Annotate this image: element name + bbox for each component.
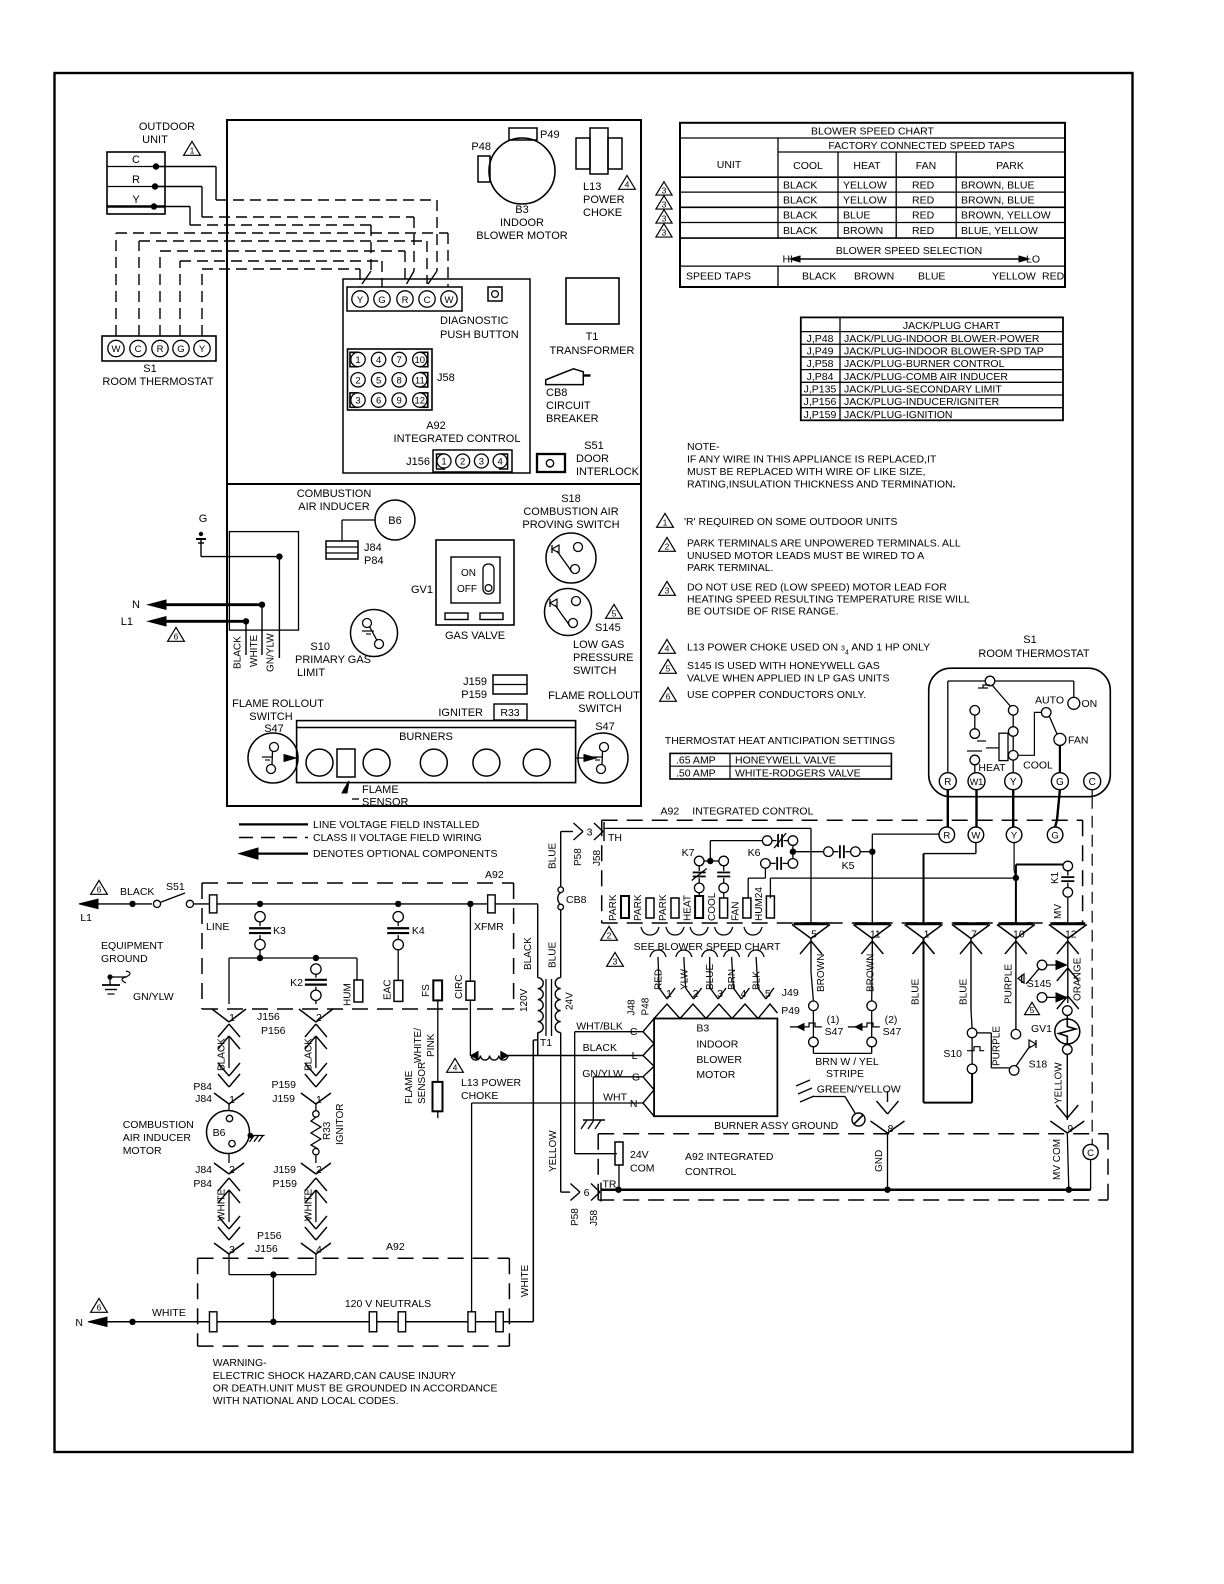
svg-text:K6: K6 (748, 847, 761, 859)
svg-text:A92: A92 (426, 420, 446, 432)
svg-text:FLAME ROLLOUT: FLAME ROLLOUT (232, 698, 324, 710)
BRN W/YEL STRIPE link (812, 1047, 814, 1054)
svg-text:R33: R33 (500, 707, 519, 719)
svg-text:COOL: COOL (793, 160, 823, 172)
junction rect (229, 532, 298, 631)
junction to J156-1 (257, 955, 263, 961)
svg-text:P156: P156 (257, 1230, 282, 1242)
GV1 yellow wire to terminal 9 (1066, 1054, 1068, 1120)
legend: optional (247, 852, 308, 854)
svg-text:HEAT: HEAT (978, 762, 1006, 774)
svg-text:RED: RED (1042, 271, 1065, 283)
svg-text:PRESSURE: PRESSURE (573, 652, 634, 664)
svg-text:INDOOR: INDOOR (696, 1039, 738, 1051)
joining wires to neutral (228, 1254, 230, 1275)
svg-text:PURPLE: PURPLE (1004, 964, 1015, 1004)
svg-text:RED: RED (912, 210, 935, 222)
svg-text:BLACK: BLACK (233, 636, 244, 669)
svg-text:CB8: CB8 (546, 387, 567, 399)
svg-text:INTEGRATED CONTROL: INTEGRATED CONTROL (692, 806, 813, 818)
svg-text:OUTDOOR: OUTDOOR (139, 121, 195, 133)
svg-text:G: G (199, 513, 208, 525)
svg-text:Y: Y (357, 295, 364, 306)
svg-text:A92 INTEGRATED: A92 INTEGRATED (685, 1151, 774, 1163)
svg-text:10: 10 (1013, 929, 1025, 941)
svg-text:DOOR: DOOR (576, 453, 609, 465)
svg-text:BE OUTSIDE OF RISE RANGE.: BE OUTSIDE OF RISE RANGE. (687, 606, 839, 618)
note triangle 6 (168, 627, 185, 641)
svg-text:GROUND: GROUND (101, 953, 148, 965)
svg-text:P84: P84 (193, 1178, 212, 1190)
svg-text:CIRC: CIRC (454, 975, 465, 999)
svg-text:RATING,INSULATION THICKNESS AN: RATING,INSULATION THICKNESS AND TERMINAT… (687, 479, 956, 491)
svg-text:PARK TERMINAL.: PARK TERMINAL. (687, 562, 774, 574)
svg-text:1: 1 (441, 457, 446, 468)
svg-text:DO NOT USE RED (LOW SPEED) MOT: DO NOT USE RED (LOW SPEED) MOTOR LEAD FO… (687, 582, 947, 594)
svg-text:J159: J159 (463, 676, 487, 688)
svg-text:B3: B3 (696, 1023, 709, 1035)
svg-text:JACK/PLUG-SECONDARY LIMIT: JACK/PLUG-SECONDARY LIMIT (844, 384, 1002, 396)
svg-text:BLUE: BLUE (548, 843, 559, 869)
svg-text:CB8: CB8 (566, 894, 587, 906)
svg-text:R33: R33 (322, 1121, 333, 1140)
thermostat C wire (dashed, field) (1091, 790, 1093, 797)
svg-text:C: C (132, 154, 140, 166)
svg-text:YELLOW: YELLOW (843, 194, 887, 206)
svg-text:Y: Y (1011, 831, 1018, 842)
svg-text:JACK/PLUG CHART: JACK/PLUG CHART (903, 320, 1001, 332)
note 3 (659, 581, 676, 595)
svg-text:P49: P49 (781, 1005, 800, 1017)
relay contact K5 (824, 847, 834, 857)
GV1 gas valve (436, 540, 514, 625)
J159 P159 plug (493, 675, 527, 694)
svg-text:W: W (971, 831, 980, 842)
svg-text:P84: P84 (193, 1081, 212, 1093)
svg-text:S47: S47 (825, 1026, 844, 1038)
svg-text:6: 6 (584, 1187, 590, 1199)
svg-text:USE COPPER CONDUCTORS ONLY.: USE COPPER CONDUCTORS ONLY. (687, 689, 866, 701)
svg-text:OR DEATH.UNIT MUST BE GROUNDED: OR DEATH.UNIT MUST BE GROUNDED IN ACCORD… (213, 1383, 498, 1395)
svg-text:DENOTES OPTIONAL COMPONENTS: DENOTES OPTIONAL COMPONENTS (313, 848, 498, 860)
svg-text:R: R (132, 174, 140, 186)
svg-text:WHITE: WHITE (520, 1264, 531, 1297)
svg-text:PINK: PINK (426, 1033, 437, 1057)
svg-text:WARNING-: WARNING- (213, 1357, 267, 1369)
svg-text:LOW GAS: LOW GAS (573, 639, 624, 651)
svg-text:COOL: COOL (707, 892, 718, 921)
svg-text:S47: S47 (595, 721, 615, 733)
svg-text:UNIT: UNIT (142, 134, 168, 146)
svg-text:7: 7 (971, 929, 977, 941)
svg-text:BLUE, YELLOW: BLUE, YELLOW (961, 225, 1038, 237)
svg-text:B6: B6 (213, 1127, 226, 1139)
fuse 24V COM (615, 1142, 623, 1165)
blower motor B3 (top) (489, 138, 555, 204)
HUM accessory terminal (356, 958, 358, 980)
svg-text:BURNERS: BURNERS (399, 731, 453, 743)
svg-text:WHT: WHT (603, 1092, 627, 1104)
svg-text:3: 3 (613, 957, 618, 967)
note triangle 4 (619, 175, 636, 189)
P58-3 TH plug arrow (574, 823, 584, 832)
P58-6 TR plug arrow (570, 1184, 580, 1193)
svg-text:BLACK: BLACK (217, 1038, 228, 1071)
svg-text:GV1: GV1 (1031, 1023, 1052, 1035)
svg-text:120 V NEUTRALS: 120 V NEUTRALS (345, 1298, 431, 1310)
svg-text:S10: S10 (310, 641, 330, 653)
svg-text:INDOOR: INDOOR (500, 217, 544, 229)
svg-text:BROWN: BROWN (843, 225, 883, 237)
svg-text:FLAME: FLAME (404, 1070, 415, 1104)
svg-text:6: 6 (666, 692, 671, 702)
L13 power choke symbol (576, 138, 590, 169)
svg-text:N: N (132, 599, 140, 611)
relay contact K1 (1063, 861, 1073, 871)
blower speed chart table (680, 123, 1065, 287)
svg-text:IF ANY WIRE IN THIS APPLIANCE: IF ANY WIRE IN THIS APPLIANCE IS REPLACE… (687, 454, 937, 466)
jack/plug chart table (801, 317, 1063, 420)
J84 P84 pin 2 (228, 1154, 230, 1163)
svg-text:BROWN, BLUE: BROWN, BLUE (961, 179, 1035, 191)
svg-text:2: 2 (460, 457, 465, 468)
svg-text:P49: P49 (540, 129, 560, 141)
svg-text:EAC: EAC (383, 979, 394, 1000)
svg-text:CONTROL: CONTROL (685, 1166, 736, 1178)
svg-text:HONEYWELL VALVE: HONEYWELL VALVE (735, 754, 836, 766)
svg-text:TH: TH (608, 832, 622, 844)
BLACK wire (inducer) (218, 1024, 229, 1037)
svg-text:BLUE: BLUE (548, 942, 559, 968)
note triangle 6 (L1 feed) (91, 880, 108, 894)
relay K3 coil (255, 912, 265, 922)
svg-text:1: 1 (190, 146, 195, 156)
svg-text:K4: K4 (412, 925, 425, 937)
svg-text:CIRCUIT: CIRCUIT (546, 400, 591, 412)
svg-text:2: 2 (316, 1164, 322, 1176)
thermostat body (929, 668, 1111, 797)
svg-text:P58: P58 (570, 1208, 581, 1226)
svg-text:SENSOR: SENSOR (362, 797, 409, 809)
svg-text:W1: W1 (970, 777, 984, 787)
svg-text:5: 5 (811, 929, 817, 941)
EAC accessory terminal (394, 980, 403, 1001)
thermostat terminals R W1 Y G C (939, 773, 956, 790)
svg-text:P159: P159 (461, 689, 487, 701)
svg-text:JACK/PLUG-INDOOR BLOWER-SPD TA: JACK/PLUG-INDOOR BLOWER-SPD TAP (844, 345, 1044, 357)
svg-text:Y: Y (199, 344, 206, 355)
svg-text:BLACK: BLACK (783, 210, 817, 222)
CB8 breaker (schematic) (558, 887, 564, 893)
svg-text:S145 IS USED WITH HONEYWELL GA: S145 IS USED WITH HONEYWELL GAS (687, 660, 880, 672)
svg-text:THERMOSTAT HEAT ANTICIPATION S: THERMOSTAT HEAT ANTICIPATION SETTINGS (665, 735, 895, 747)
svg-text:3: 3 (665, 586, 670, 596)
svg-text:9: 9 (397, 396, 402, 407)
note triangle 6 (neutral) (91, 1298, 108, 1312)
lower A92 integrated control dashed box (598, 1133, 1108, 1135)
svg-text:WITH NATIONAL AND LOCAL CODES.: WITH NATIONAL AND LOCAL CODES. (213, 1395, 399, 1407)
svg-text:11: 11 (415, 375, 425, 386)
svg-text:4: 4 (625, 180, 630, 190)
svg-text:COOL: COOL (1023, 760, 1053, 772)
svg-text:6: 6 (97, 1303, 102, 1313)
svg-text:BLOWER MOTOR: BLOWER MOTOR (476, 230, 568, 242)
svg-text:R: R (402, 295, 409, 306)
CB8 circuit breaker symbol (546, 369, 584, 385)
svg-text:PROVING SWITCH: PROVING SWITCH (522, 519, 619, 531)
svg-text:2: 2 (665, 542, 670, 552)
svg-text:W: W (112, 344, 121, 355)
B3 indoor blower motor box (654, 1019, 777, 1117)
legend: line voltage (239, 823, 308, 825)
relay K2 coil (313, 955, 319, 961)
svg-text:GN/YLW: GN/YLW (266, 633, 277, 672)
cool contact chain (Y) (1008, 706, 1018, 716)
svg-text:BROWN: BROWN (865, 954, 876, 992)
svg-text:J49: J49 (782, 987, 799, 999)
svg-text:3: 3 (355, 396, 360, 407)
svg-text:J156: J156 (406, 456, 430, 468)
wire thermostat R (159, 251, 161, 336)
J156 connector strip (433, 450, 512, 472)
svg-text:WHT/BLK: WHT/BLK (576, 1021, 623, 1033)
P48 plug sawtooth (B3 left) (643, 1019, 654, 1117)
svg-text:9: 9 (1067, 1123, 1073, 1135)
svg-text:G: G (177, 344, 184, 355)
svg-text:K2: K2 (290, 977, 303, 989)
wire outdoor C (156, 166, 216, 168)
svg-text:LINE VOLTAGE FIELD INSTALLED: LINE VOLTAGE FIELD INSTALLED (313, 819, 480, 831)
svg-text:G: G (632, 1072, 640, 1084)
svg-text:FAN: FAN (916, 160, 936, 172)
note 1 (657, 513, 674, 527)
svg-text:FACTORY CONNECTED SPEED TAPS: FACTORY CONNECTED SPEED TAPS (828, 140, 1014, 152)
svg-text:J84: J84 (195, 1093, 212, 1105)
svg-text:LIMIT: LIMIT (297, 667, 325, 679)
svg-text:2: 2 (229, 1164, 235, 1176)
svg-text:HEAT: HEAT (853, 160, 881, 172)
neutral fuses (209, 1312, 217, 1332)
wire GN/YLW (G) to chassis ground (593, 1076, 643, 1078)
BLUE wire secondary top to CB8 (560, 909, 562, 977)
svg-text:FLAME ROLLOUT: FLAME ROLLOUT (548, 690, 640, 702)
svg-text:FS: FS (421, 984, 432, 997)
svg-text:HEAT: HEAT (683, 895, 694, 921)
svg-text:4: 4 (453, 1063, 458, 1073)
legend: class II (239, 837, 308, 839)
svg-text:.50 AMP: .50 AMP (676, 767, 716, 779)
svg-text:XFMR: XFMR (474, 921, 504, 933)
R wire to RO2 (872, 833, 939, 835)
svg-text:PUSH BUTTON: PUSH BUTTON (440, 329, 519, 341)
svg-text:SWITCH: SWITCH (573, 665, 616, 677)
pressure switch S18 (blower section) (1009, 1066, 1019, 1076)
svg-text:K7: K7 (682, 847, 695, 859)
svg-text:PURPLE: PURPLE (992, 1026, 1003, 1066)
svg-text:PARK: PARK (608, 894, 619, 921)
svg-text:LINE: LINE (206, 921, 229, 933)
svg-text:FAN: FAN (1068, 735, 1088, 747)
integrated control A92 solid box (343, 279, 530, 473)
svg-text:YELLOW: YELLOW (992, 271, 1036, 283)
svg-text:HUM: HUM (343, 983, 354, 1006)
T1 secondary bottom YELLOW wire (560, 1033, 562, 1193)
outdoor unit terminal box (107, 152, 165, 214)
svg-text:24V: 24V (630, 1149, 649, 1161)
terminal bars + V arrows (794, 922, 829, 925)
svg-text:MV COM: MV COM (1052, 1139, 1063, 1180)
svg-text:Y: Y (1010, 777, 1017, 788)
svg-text:BLUE: BLUE (911, 979, 922, 1005)
svg-text:24V: 24V (565, 992, 576, 1010)
svg-text:4: 4 (740, 988, 746, 1000)
HUM24 to PS/K1 node wire (769, 878, 771, 898)
svg-text:J,P159: J,P159 (804, 409, 837, 421)
svg-text:5: 5 (765, 988, 771, 1000)
combustion section box (227, 484, 641, 806)
svg-text:6: 6 (376, 396, 381, 407)
svg-text:S47: S47 (883, 1026, 902, 1038)
svg-text:J159: J159 (272, 1093, 295, 1105)
S1 room thermostat terminal strip (102, 336, 216, 361)
page border frame (55, 73, 1133, 1452)
svg-text:2: 2 (316, 1012, 322, 1024)
fuse XFMR (488, 895, 496, 913)
svg-text:K5: K5 (842, 860, 855, 872)
BLACK wire (igniter) (305, 1024, 316, 1037)
unit cabinet box (top) (227, 120, 641, 484)
svg-text:CHOKE: CHOKE (461, 1090, 498, 1102)
svg-text:S1: S1 (1023, 634, 1036, 646)
svg-text:PARK: PARK (996, 160, 1024, 172)
svg-text:J,P58: J,P58 (807, 358, 834, 370)
svg-text:P48: P48 (471, 141, 491, 153)
svg-text:J,P84: J,P84 (807, 371, 834, 383)
thermostat connection circles R W Y G (939, 827, 955, 843)
svg-text:1: 1 (316, 1094, 322, 1106)
svg-text:120V: 120V (519, 988, 530, 1012)
svg-text:BLACK: BLACK (303, 1038, 314, 1071)
svg-text:YELLOW: YELLOW (843, 179, 887, 191)
svg-text:(1): (1) (827, 1014, 840, 1026)
svg-text:P159: P159 (271, 1079, 296, 1091)
svg-text:3: 3 (662, 199, 667, 209)
svg-text:J84: J84 (195, 1164, 212, 1176)
svg-text:J84: J84 (364, 542, 382, 554)
svg-text:4: 4 (316, 1244, 322, 1256)
svg-text:A92: A92 (485, 869, 504, 881)
svg-text:G: G (1056, 777, 1064, 788)
TH wire to RO1 (604, 827, 811, 829)
svg-text:J58: J58 (589, 1209, 600, 1226)
svg-text:GND: GND (874, 1150, 885, 1172)
C terminal circle (1083, 1144, 1098, 1159)
svg-text:1: 1 (229, 1012, 235, 1024)
svg-text:12: 12 (415, 396, 426, 407)
svg-text:YELLOW: YELLOW (1054, 1062, 1065, 1104)
svg-text:WHITE: WHITE (152, 1307, 186, 1319)
svg-text:S18: S18 (561, 493, 581, 505)
svg-text:4: 4 (497, 457, 502, 468)
svg-text:INTERLOCK: INTERLOCK (576, 466, 640, 478)
svg-text:Y: Y (132, 194, 140, 206)
svg-text:J159: J159 (273, 1164, 296, 1176)
note 5 (660, 659, 677, 673)
svg-text:J,P49: J,P49 (807, 345, 834, 357)
svg-text:B3: B3 (515, 204, 528, 216)
wire L1 to T1 primary (534, 903, 538, 905)
svg-text:WHITE: WHITE (249, 634, 260, 667)
24V common bus (601, 1188, 1091, 1191)
svg-text:BLUE: BLUE (918, 271, 945, 283)
svg-text:10: 10 (415, 355, 426, 366)
svg-text:BLACK: BLACK (783, 225, 817, 237)
svg-text:ON: ON (461, 568, 476, 579)
switch S51 (door interlock contact) (153, 900, 160, 907)
svg-text:RED: RED (912, 225, 935, 237)
svg-text:SWITCH: SWITCH (249, 711, 292, 723)
svg-text:R: R (944, 777, 951, 788)
svg-text:SEE BLOWER SPEED CHART: SEE BLOWER SPEED CHART (634, 941, 781, 953)
svg-text:BREAKER: BREAKER (546, 413, 599, 425)
YGRCW low-voltage terminal strip (347, 287, 462, 311)
svg-text:COMBUSTION: COMBUSTION (297, 488, 372, 500)
svg-text:(2): (2) (885, 1014, 898, 1026)
J58 connector grid (348, 349, 433, 410)
flame sensor electrode (337, 749, 355, 777)
svg-text:AIR INDUCER: AIR INDUCER (123, 1132, 192, 1144)
svg-text:A92: A92 (661, 806, 680, 818)
wire outdoor R (155, 186, 202, 188)
svg-text:R: R (943, 831, 950, 842)
wire WHT (N) to neutral (472, 1102, 643, 1104)
relay K4 coil (393, 912, 403, 922)
svg-text:2: 2 (355, 375, 360, 386)
svg-text:GV1: GV1 (411, 584, 433, 596)
J156 pin 2 terminal (299, 1009, 316, 1022)
svg-text:P156: P156 (261, 1025, 286, 1037)
S10 primary gas limit (351, 610, 398, 657)
svg-text:ROOM THERMOSTAT: ROOM THERMOSTAT (978, 648, 1090, 660)
svg-text:L1: L1 (121, 616, 133, 628)
svg-text:MUST BE REPLACED WITH WIRE OF: MUST BE REPLACED WITH WIRE OF LIKE SIZE, (687, 466, 925, 478)
note triangle 1 (outdoor unit) (184, 141, 201, 155)
svg-text:L1: L1 (80, 912, 92, 924)
svg-text:3: 3 (662, 185, 667, 195)
svg-text:BROWN, BLUE: BROWN, BLUE (961, 194, 1035, 206)
svg-text:4: 4 (376, 355, 381, 366)
svg-text:11: 11 (870, 929, 881, 941)
svg-text:2: 2 (693, 988, 699, 1000)
S47 (1) actuator (790, 1026, 806, 1028)
svg-text:3: 3 (587, 827, 593, 839)
svg-text:BROWN: BROWN (816, 954, 827, 992)
svg-text:OFF: OFF (457, 584, 477, 595)
T1 primary bottom to neutral riser (537, 1033, 539, 1055)
svg-text:4: 4 (665, 644, 670, 654)
WHITE wire (inducer) (218, 1178, 229, 1191)
svg-text:5: 5 (612, 609, 617, 619)
svg-text:RED: RED (912, 194, 935, 206)
svg-text:UNIT: UNIT (717, 159, 742, 171)
svg-text:J,P135: J,P135 (804, 384, 837, 396)
svg-text:SWITCH: SWITCH (578, 703, 621, 715)
svg-text:IGNITER: IGNITER (438, 707, 483, 719)
J84 P84 plug (326, 541, 358, 559)
node GN/YLW (276, 553, 282, 559)
svg-text:J,P48: J,P48 (807, 333, 834, 345)
FS flame sensor terminal (433, 980, 442, 1000)
